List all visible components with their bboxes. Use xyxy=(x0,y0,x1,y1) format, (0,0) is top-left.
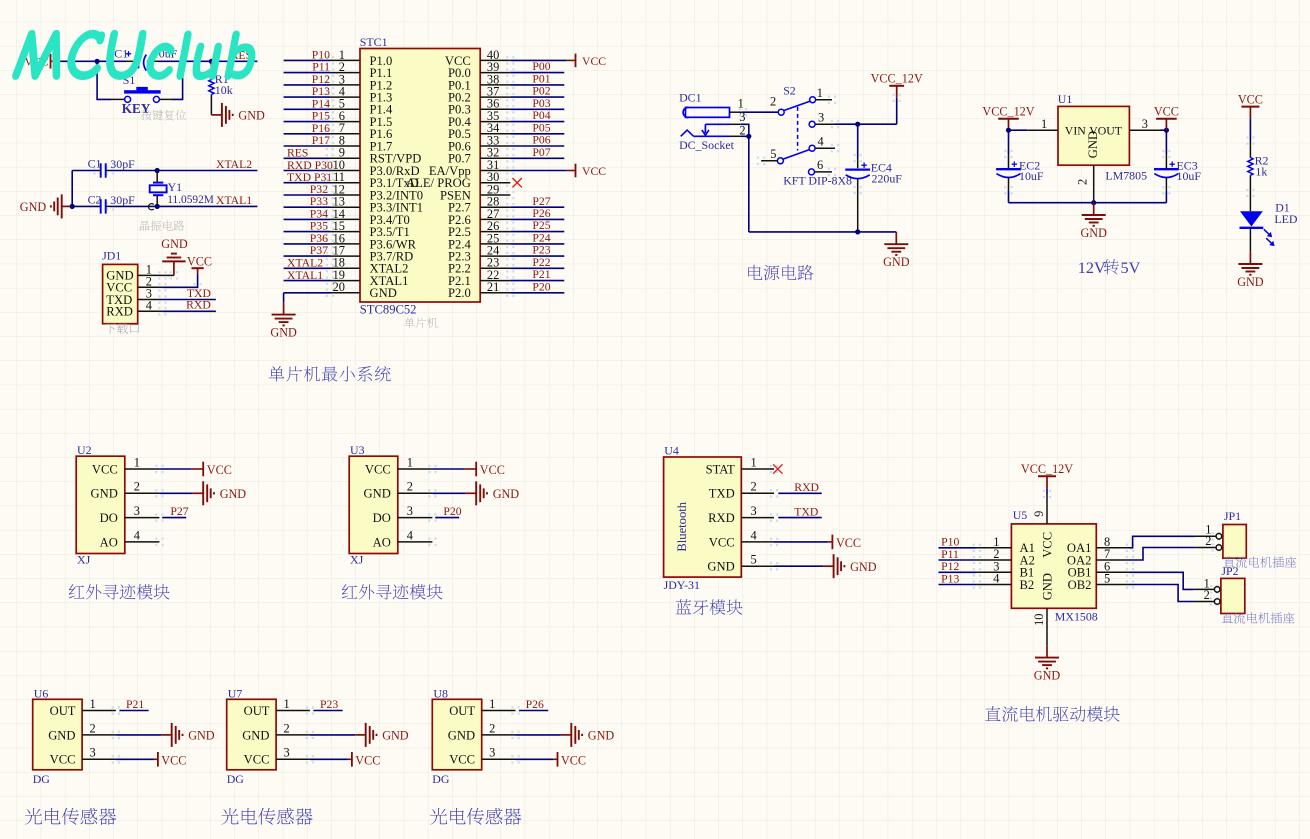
STC1 pin name P3.5/T1 xyxy=(370,225,410,239)
ground GND (LED) xyxy=(1237,252,1264,289)
title 光电传感器 (U8) xyxy=(430,808,521,825)
STC1 pin 8 stub xyxy=(330,133,360,147)
svg-text:U7: U7 xyxy=(228,686,243,700)
svg-text:P22: P22 xyxy=(532,256,550,269)
wire U4 pin4 VCC xyxy=(774,541,832,543)
svg-text:P06: P06 xyxy=(532,134,550,147)
net label P21 xyxy=(532,268,550,281)
comment 下载口 xyxy=(105,323,139,334)
U8 pin 1 stub xyxy=(482,697,516,711)
svg-text:GND: GND xyxy=(48,728,75,742)
wire STC1 pin 28 xyxy=(510,206,564,208)
svg-text:S2: S2 xyxy=(783,83,796,97)
svg-text:RXD: RXD xyxy=(186,299,211,312)
STC1 pin name P3.7/RD xyxy=(370,250,414,264)
power port VCC_12V xyxy=(871,72,923,98)
wire STC1 pin 27 xyxy=(510,218,564,220)
wire VCC to junction xyxy=(62,60,98,62)
svg-text:GND: GND xyxy=(188,729,215,743)
svg-text:XTAL2: XTAL2 xyxy=(287,257,323,270)
ground GND (U4) xyxy=(823,554,877,578)
svg-text:VCC: VCC xyxy=(92,462,118,476)
U6 pin 2 stub xyxy=(82,721,116,735)
svg-text:GND: GND xyxy=(364,487,391,501)
U3 pin name GND xyxy=(364,487,391,501)
wire U4 pin5 GND xyxy=(774,565,823,567)
STC1 pin 37 stub xyxy=(480,85,510,99)
ground GND (STC1) xyxy=(270,302,297,339)
svg-text:STC1: STC1 xyxy=(360,35,388,49)
svg-text:DG: DG xyxy=(432,772,450,786)
svg-text:P12: P12 xyxy=(312,73,330,86)
net label P12 xyxy=(941,560,959,573)
JD1 pin name TXD xyxy=(106,293,132,307)
U5 pin 2 stub xyxy=(977,547,1012,561)
svg-text:P21: P21 xyxy=(532,268,550,281)
svg-text:P11: P11 xyxy=(941,548,959,561)
U5 pin name A2 xyxy=(1020,553,1035,567)
net label P01 xyxy=(532,73,550,86)
net label P34 xyxy=(310,207,328,220)
ground GND (R1) xyxy=(211,103,265,127)
net label P04 xyxy=(532,109,550,122)
svg-text:U3: U3 xyxy=(350,443,365,457)
svg-text:STAT: STAT xyxy=(706,462,735,476)
STC1 pin 40 stub xyxy=(480,48,510,62)
svg-text:2: 2 xyxy=(1204,588,1210,602)
wire STC1 pin 24 xyxy=(510,255,564,257)
svg-text:RES: RES xyxy=(287,147,308,160)
svg-text:KFT DIP-8X8: KFT DIP-8X8 xyxy=(783,173,852,187)
svg-text:3: 3 xyxy=(407,504,413,518)
node S1 right leg xyxy=(180,59,184,63)
net label TXD xyxy=(187,287,211,300)
net label P26 xyxy=(532,207,550,220)
U2 pin 2 stub xyxy=(125,480,160,494)
connector JD1 xyxy=(102,248,138,323)
module U2 (infrared) xyxy=(76,443,125,554)
net label RXD xyxy=(186,299,211,312)
svg-text:VCC: VCC xyxy=(355,754,380,768)
wire STC1 pin 25 xyxy=(510,243,564,245)
svg-text:5V: 5V xyxy=(1121,259,1141,277)
net label P12 xyxy=(312,73,330,86)
wire U5 pin 2 xyxy=(939,559,977,561)
module U7 (photo sensor) xyxy=(227,686,276,769)
STC1 pin 4 stub xyxy=(330,85,360,99)
svg-text:TXD: TXD xyxy=(709,487,735,501)
STC1 right pin name P2.7 xyxy=(448,201,471,215)
U7 pin 2 stub xyxy=(276,721,310,735)
JD1 pin 1 xyxy=(138,263,163,277)
svg-text:1k: 1k xyxy=(1255,165,1267,179)
U4 pin 2 stub xyxy=(741,480,774,494)
svg-text:P21: P21 xyxy=(126,698,144,711)
STC1 pin 36 stub xyxy=(480,97,510,111)
wire STC1 pin 20 GND xyxy=(284,293,360,303)
power port VCC (U4) xyxy=(832,535,861,551)
svg-text:P01: P01 xyxy=(532,73,550,86)
svg-text:10: 10 xyxy=(1032,614,1046,626)
svg-text:2: 2 xyxy=(1205,534,1211,548)
svg-text:GND: GND xyxy=(1086,131,1100,158)
svg-text:P16: P16 xyxy=(312,122,330,135)
svg-text:AO: AO xyxy=(100,535,118,549)
STC1 pin name P1.0 xyxy=(370,54,393,68)
STC1 pin 14 stub xyxy=(330,207,360,221)
node junction R1/RES xyxy=(209,59,214,64)
svg-text:1: 1 xyxy=(90,697,96,711)
svg-text:JP2: JP2 xyxy=(1221,564,1238,578)
svg-text:DG: DG xyxy=(227,772,245,786)
STC1 right pin name P0.1 xyxy=(448,78,471,92)
svg-text:VCC: VCC xyxy=(1154,105,1179,119)
U6 pin name OUT xyxy=(50,704,76,718)
STC1 pin name P3.1/TxD xyxy=(370,176,419,190)
title 12V转5V xyxy=(1078,259,1141,277)
svg-text:P00: P00 xyxy=(532,60,550,73)
U2 pin name GND xyxy=(91,487,118,501)
designator XJ (U3) xyxy=(350,553,364,567)
U5 pin name OA2 xyxy=(1067,553,1092,567)
svg-text:P10: P10 xyxy=(312,48,330,61)
wire VCC_12V down xyxy=(896,98,898,124)
wire STC1 pin 37 xyxy=(510,96,564,98)
wire U4 pin3 xyxy=(778,517,821,519)
svg-text:1: 1 xyxy=(489,697,495,711)
net label P10 xyxy=(941,536,959,549)
U2 pin 1 stub xyxy=(125,455,160,469)
STC1 right pin name P0.0 xyxy=(448,66,471,80)
svg-text:DO: DO xyxy=(373,511,391,525)
svg-text:P07: P07 xyxy=(532,146,550,159)
STC1 right pin name P2.5 xyxy=(448,225,471,239)
net label P11 xyxy=(941,548,959,561)
svg-text:2: 2 xyxy=(90,721,96,735)
net label P22 xyxy=(532,256,550,269)
STC1 right pin name P0.2 xyxy=(448,91,471,105)
power port VCC (U1 out) xyxy=(1154,105,1179,131)
net label XTAL2 xyxy=(287,257,323,270)
U7 pin 1 stub xyxy=(276,697,310,711)
U5 pin name B1 xyxy=(1020,566,1035,580)
svg-text:DC_Socket: DC_Socket xyxy=(679,138,735,152)
wire JD1 pin4 RXD xyxy=(162,310,216,312)
svg-text:JD1: JD1 xyxy=(102,248,121,262)
power port VCC_12V (U5) xyxy=(1021,462,1073,488)
svg-text:U4: U4 xyxy=(664,444,679,458)
net label P37 xyxy=(310,244,328,257)
wire STC1 pin 17 xyxy=(284,255,330,257)
net label P27 xyxy=(532,195,550,208)
STC1 pin 31 stub xyxy=(480,158,510,172)
U4 pin name TXD xyxy=(709,487,735,501)
U3 pin 2 stub xyxy=(398,480,433,494)
wire STC1 pin 32 xyxy=(510,157,564,159)
svg-text:XJ: XJ xyxy=(77,553,91,567)
no connect X pin 30 xyxy=(513,178,522,187)
wire STC1 pin 16 xyxy=(284,243,330,245)
U8 pin name GND xyxy=(448,728,475,742)
title 红外寻迹模块 (U2) xyxy=(69,584,170,600)
svg-text:VCC: VCC xyxy=(187,254,212,268)
wire DC1 pin1 to S2 xyxy=(743,111,778,113)
svg-text:OUT: OUT xyxy=(244,704,270,718)
svg-text:1: 1 xyxy=(134,455,140,469)
connector JP2 xyxy=(1204,564,1245,614)
svg-text:P10: P10 xyxy=(941,536,959,549)
driver U5 MX1508 xyxy=(1011,508,1096,608)
STC1 pin name P1.6 xyxy=(370,127,393,141)
STC1 pin name P1.7 xyxy=(370,139,393,153)
STC1 right pin name P2.0 xyxy=(448,286,471,300)
net label P02 xyxy=(532,85,550,98)
svg-text:VCC: VCC xyxy=(709,535,735,549)
STC1 pin name XTAL2 xyxy=(370,262,409,276)
wire JD1 pin1 to GND xyxy=(162,274,174,276)
STC1 right pin name PSEN xyxy=(440,188,471,202)
svg-text:OB2: OB2 xyxy=(1068,578,1092,592)
svg-text:3: 3 xyxy=(818,111,824,125)
svg-text:VCC: VCC xyxy=(582,55,606,68)
wire STC1 pin 7 xyxy=(284,133,330,135)
wire STC1 pin 36 xyxy=(510,108,564,110)
U5 pin name B2 xyxy=(1020,578,1035,592)
STC1 pin 12 stub xyxy=(330,182,360,196)
svg-text:3: 3 xyxy=(489,746,495,760)
svg-text:9: 9 xyxy=(1032,511,1046,517)
U6 pin name VCC xyxy=(50,753,76,767)
switch S2 KFT DIP-8X8 xyxy=(761,83,852,187)
wire STC1 pin 2 xyxy=(284,72,330,74)
U7 pin name OUT xyxy=(244,704,270,718)
svg-text:P25: P25 xyxy=(532,219,550,232)
wire VCC to R2 xyxy=(1249,119,1251,141)
svg-text:GND: GND xyxy=(238,109,265,123)
svg-text:6: 6 xyxy=(817,158,823,172)
svg-text:1: 1 xyxy=(738,96,744,110)
svg-text:GND: GND xyxy=(493,487,520,501)
STC1 right pin name P0.5 xyxy=(448,127,471,141)
net label RXD (U4) xyxy=(794,481,819,494)
STC1 pin 28 stub xyxy=(480,195,510,209)
U5 pin 4 stub xyxy=(977,572,1012,586)
wire U2 VCC xyxy=(159,468,203,470)
svg-text:3: 3 xyxy=(284,746,290,760)
svg-text:GND: GND xyxy=(161,237,188,251)
wire U5 pin8 to JP1.1 xyxy=(1130,536,1216,548)
U3 pin name AO xyxy=(373,535,391,549)
svg-text:VCC_12V: VCC_12V xyxy=(871,72,923,86)
title 红外寻迹模块 (U3) xyxy=(342,584,443,600)
net label XTAL1 xyxy=(287,269,323,282)
bottom wire U1 xyxy=(1009,202,1167,204)
svg-text:P13: P13 xyxy=(312,85,330,98)
svg-text:C2: C2 xyxy=(88,192,102,206)
svg-text:VCC: VCC xyxy=(50,753,76,767)
net label P24 xyxy=(532,232,550,245)
net label P26 xyxy=(526,698,544,711)
ground GND (power circuit) xyxy=(883,232,910,269)
svg-text:VIN: VIN xyxy=(1065,123,1086,137)
svg-text:GND: GND xyxy=(382,729,409,743)
capacitor C1 30pF xyxy=(88,156,136,177)
designator MX1508 xyxy=(1055,610,1098,624)
wire RES xyxy=(211,60,257,62)
connector DC1 DC_Socket xyxy=(679,90,746,152)
U1 pin 3 xyxy=(1129,117,1166,131)
STC1 pin name P3.6/WR xyxy=(370,237,417,251)
STC1 pin name P1.1 xyxy=(370,66,393,80)
svg-text:P20: P20 xyxy=(532,280,550,293)
net label P33 xyxy=(310,195,328,208)
wire U5 pin6 to JP2.1 xyxy=(1130,572,1214,589)
svg-text:VCC: VCC xyxy=(244,753,270,767)
capacitor EC1 10uF xyxy=(107,47,178,71)
wire U5 pin7 to JP1.2 xyxy=(1130,548,1216,561)
STC1 pin name GND xyxy=(370,286,397,300)
STC1 pin 1 stub xyxy=(330,48,360,62)
svg-text:5: 5 xyxy=(770,147,776,161)
ground GND (U8) xyxy=(561,723,615,747)
U7 pin name VCC xyxy=(244,753,270,767)
STC1 pin 5 stub xyxy=(330,97,360,111)
net label P13 xyxy=(312,85,330,98)
U4 pin 1 stub xyxy=(741,455,774,469)
U5 pin 8 stub xyxy=(1096,535,1130,549)
svg-text:MX1508: MX1508 xyxy=(1055,610,1098,624)
svg-text:30pF: 30pF xyxy=(110,193,135,207)
wire U2 GND xyxy=(159,492,192,494)
svg-text:11.0592M: 11.0592M xyxy=(167,194,214,206)
wire U5 pin5 to JP2.2 xyxy=(1130,585,1214,602)
wire DC1 pin2 xyxy=(741,135,749,137)
wire STC1 pin 21 xyxy=(510,292,564,294)
svg-text:10k: 10k xyxy=(215,83,233,97)
STC1 pin 33 stub xyxy=(480,133,510,147)
wire STC1 pin 11 xyxy=(284,182,330,184)
U5 pin 5 stub xyxy=(1096,572,1130,586)
STC1 pin 21 stub xyxy=(480,280,510,294)
U5 pin 6 stub xyxy=(1096,560,1130,574)
wire gnd up to C1 row xyxy=(72,171,97,207)
svg-text:P12: P12 xyxy=(941,560,959,573)
svg-text:U8: U8 xyxy=(433,686,448,700)
svg-text:VCC: VCC xyxy=(161,754,186,768)
net label P07 xyxy=(532,146,550,159)
U1 pin 2 xyxy=(1075,165,1093,203)
net label P16 xyxy=(312,122,330,135)
resistor R1 10k xyxy=(209,61,233,115)
net label RXD P30 xyxy=(287,159,333,172)
svg-text:4: 4 xyxy=(134,528,140,542)
U5 pin 7 stub xyxy=(1096,547,1130,561)
wire U6 VCC xyxy=(116,758,158,760)
wire STC1 pin 26 xyxy=(510,231,564,233)
wire DC1 pin3 down xyxy=(741,124,749,136)
U3 pin 1 stub xyxy=(398,455,433,469)
U6 pin 1 stub xyxy=(82,697,116,711)
title 单片机最小系统 xyxy=(269,366,391,382)
STC1 pin 35 stub xyxy=(480,109,510,123)
U6 pin name GND xyxy=(48,728,75,742)
svg-text:GND: GND xyxy=(1041,573,1055,600)
net label P20 xyxy=(532,280,550,293)
capacitor EC2 10uF xyxy=(996,130,1044,203)
STC1 pin name P1.4 xyxy=(370,103,393,117)
JD1 pin name RXD xyxy=(106,305,133,319)
power port VCC (U6) xyxy=(158,752,186,768)
U4 pin 5 stub xyxy=(741,553,774,567)
STC1 right pin name VCC xyxy=(445,54,471,68)
power port VCC (U8) xyxy=(558,752,586,768)
U6 pin 3 stub xyxy=(82,746,116,760)
wire STC1 pin 39 xyxy=(510,72,564,74)
net label P20 xyxy=(443,505,461,518)
svg-text:JP1: JP1 xyxy=(1224,509,1241,523)
STC1 right pin name P0.6 xyxy=(448,139,471,153)
STC1 pin name P3.3/INT1 xyxy=(370,201,424,215)
JD1 pin 2 xyxy=(138,275,163,289)
STC1 right pin name P2.1 xyxy=(448,274,471,288)
svg-text:P20: P20 xyxy=(443,505,461,518)
U8 pin 3 stub xyxy=(482,746,516,760)
svg-text:STC89C52: STC89C52 xyxy=(360,302,417,316)
svg-text:4: 4 xyxy=(818,135,824,149)
svg-text:VCC_12V: VCC_12V xyxy=(982,105,1034,119)
wire STC1 pin 5 xyxy=(284,108,330,110)
svg-text:P11: P11 xyxy=(312,61,330,74)
STC1 pin 20 stub xyxy=(330,280,360,294)
svg-text:2: 2 xyxy=(770,94,776,108)
svg-text:P33: P33 xyxy=(310,195,328,208)
svg-text:XTAL1: XTAL1 xyxy=(216,194,252,207)
wire XTAL1 xyxy=(157,205,257,207)
wire C1 to XTAL2 node xyxy=(110,170,157,172)
STC1 right pin name P0.7 xyxy=(448,152,471,166)
U3 pin name VCC xyxy=(365,462,391,476)
svg-text:4: 4 xyxy=(146,299,152,313)
svg-text:P15: P15 xyxy=(312,110,330,123)
net label P06 xyxy=(532,134,550,147)
svg-text:RXD P30: RXD P30 xyxy=(287,159,333,172)
STC1 right pin name P2.2 xyxy=(448,262,471,276)
label 直流电机插座 (JP1) xyxy=(1224,556,1297,567)
STC1 pin 39 stub xyxy=(480,60,510,74)
power port VCC (U3) xyxy=(476,462,505,478)
svg-text:GND: GND xyxy=(91,487,118,501)
wire STC1 pin 38 xyxy=(510,84,564,86)
svg-text:GND: GND xyxy=(1034,668,1061,682)
crystal Y1 11.0592M xyxy=(148,171,213,210)
svg-text:30pF: 30pF xyxy=(110,157,135,171)
ground GND (U6) xyxy=(161,723,215,747)
ground GND (U7) xyxy=(355,723,409,747)
wire U8 OUT xyxy=(519,710,548,712)
U5 pin name OB1 xyxy=(1068,566,1092,580)
svg-text:OUT: OUT xyxy=(449,704,475,718)
label 直流电机插座 (JP2) xyxy=(1222,612,1295,623)
svg-text:VCC: VCC xyxy=(1041,532,1055,558)
power port VCC (pin40) xyxy=(576,54,607,68)
U3 pin 3 stub xyxy=(398,504,433,518)
svg-text:3: 3 xyxy=(134,504,140,518)
svg-text:VCC_12V: VCC_12V xyxy=(1021,462,1073,476)
svg-text:U2: U2 xyxy=(77,443,92,457)
svg-text:VCC: VCC xyxy=(561,754,586,768)
svg-text:1: 1 xyxy=(751,455,757,469)
svg-text:GND: GND xyxy=(1237,275,1264,289)
